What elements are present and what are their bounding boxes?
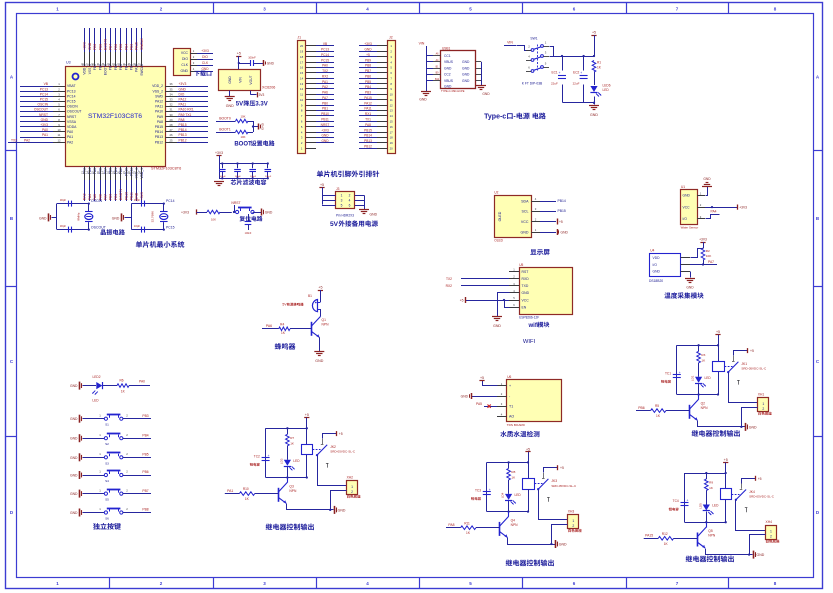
svg-text:LED6: LED6 (603, 84, 611, 88)
svg-text:4: 4 (349, 198, 351, 202)
svg-text:PA0: PA0 (67, 130, 73, 134)
svg-text:GND: GND (112, 216, 120, 220)
svg-text:PB11: PB11 (321, 118, 329, 122)
svg-text:S1: S1 (105, 423, 109, 427)
svg-text:TXD: TXD (522, 284, 529, 288)
svg-text:NPN: NPN (322, 323, 330, 327)
svg-text:+: + (679, 371, 681, 375)
svg-text:XH2: XH2 (347, 475, 354, 479)
svg-text:GND: GND (179, 87, 187, 91)
svg-text:5V: 5V (236, 102, 243, 108)
svg-text:S2: S2 (105, 442, 109, 446)
svg-text:10K: 10K (241, 135, 246, 139)
svg-text:U6: U6 (507, 375, 511, 379)
svg-text:PA5: PA5 (476, 402, 482, 406)
svg-text:R3: R3 (701, 353, 705, 357)
svg-text:JK2: JK2 (330, 445, 336, 449)
svg-text:PA12: PA12 (364, 101, 372, 105)
svg-text:PC15: PC15 (321, 58, 329, 62)
svg-text:LED: LED (705, 376, 712, 380)
svg-text:+: + (489, 488, 491, 492)
svg-text:OSCOUT: OSCOUT (67, 110, 82, 114)
svg-text:15: 15 (300, 71, 304, 75)
svg-text:VSSA: VSSA (67, 120, 77, 124)
svg-text:CLK: CLK (202, 61, 209, 65)
svg-text:GND: GND (522, 291, 530, 295)
svg-text:PA1: PA1 (42, 133, 48, 137)
svg-text:GND: GND (201, 67, 209, 71)
svg-text:PA12: PA12 (179, 98, 187, 102)
svg-text:PB3: PB3 (130, 44, 134, 50)
svg-text:PB8: PB8 (365, 64, 371, 68)
svg-text:XC6206: XC6206 (262, 86, 275, 90)
svg-text:GND: GND (559, 543, 567, 547)
svg-text:VOUT: VOUT (249, 75, 253, 84)
svg-text:100nF: 100nF (248, 56, 256, 60)
svg-text:PA11: PA11 (155, 105, 163, 109)
svg-text:GND: GND (590, 113, 598, 117)
svg-text:TX2: TX2 (322, 69, 328, 73)
svg-text:+3V3: +3V3 (699, 237, 707, 241)
svg-text:U2: U2 (494, 191, 498, 195)
svg-text:S6: S6 (105, 517, 109, 521)
svg-text:22uF: 22uF (573, 82, 580, 86)
svg-text:PB5: PB5 (142, 453, 148, 457)
svg-text:R11: R11 (464, 521, 470, 525)
svg-text:+5: +5 (724, 458, 728, 462)
svg-text:PC14: PC14 (67, 94, 76, 98)
svg-text:PC13: PC13 (321, 48, 329, 52)
svg-text:GND: GND (267, 61, 275, 65)
svg-text:10K: 10K (211, 218, 216, 222)
svg-text:OSCIN: OSCIN (91, 199, 103, 203)
svg-text:SCL: SCL (522, 209, 529, 213)
svg-text:TC3: TC3 (475, 488, 481, 492)
svg-text:R8: R8 (511, 470, 515, 474)
svg-text:+3V3: +3V3 (181, 210, 189, 214)
svg-text:11: 11 (390, 98, 393, 102)
svg-text:PB15: PB15 (155, 125, 163, 129)
svg-text:PA11: PA11 (364, 107, 372, 111)
svg-text:GND: GND (338, 508, 346, 512)
svg-text:PB6: PB6 (365, 74, 371, 78)
svg-text:GND: GND (41, 118, 49, 122)
svg-text:100nF: 100nF (219, 176, 226, 178)
svg-text:VBUS: VBUS (444, 60, 454, 64)
svg-text:GND: GND (70, 474, 78, 478)
svg-text:R6: R6 (119, 378, 123, 382)
svg-text:J3: J3 (336, 187, 340, 191)
svg-text:EN: EN (522, 305, 527, 309)
svg-text:2: 2 (349, 194, 351, 198)
svg-text:GND: GND (683, 194, 691, 198)
svg-text:BOOT0: BOOT0 (219, 117, 231, 121)
svg-text:VSS_2: VSS_2 (152, 89, 163, 93)
svg-text:CLK: CLK (181, 63, 188, 67)
svg-text:PA2: PA2 (322, 85, 328, 89)
svg-text:AO: AO (509, 415, 514, 419)
svg-text:13: 13 (300, 82, 304, 86)
svg-text:LED: LED (515, 493, 522, 497)
svg-text:3: 3 (341, 198, 343, 202)
svg-text:GND: GND (364, 48, 372, 52)
svg-text:11: 11 (58, 133, 61, 137)
svg-text:Q5: Q5 (708, 529, 713, 533)
svg-text:SRD-05VDC-SL-C: SRD-05VDC-SL-C (330, 450, 356, 454)
svg-text:EC1: EC1 (552, 70, 558, 74)
svg-text:GND: GND (370, 213, 378, 217)
svg-text:OLED: OLED (494, 239, 503, 243)
svg-text:PA8: PA8 (157, 120, 163, 124)
svg-text:17: 17 (300, 60, 304, 64)
svg-text:GND: GND (321, 134, 329, 138)
svg-text:PC14: PC14 (166, 199, 175, 203)
svg-text:DIO: DIO (179, 92, 185, 96)
svg-text:30pF: 30pF (60, 198, 66, 202)
svg-text:GND: GND (444, 84, 452, 88)
svg-text:GND: GND (757, 553, 765, 557)
svg-text:PB5: PB5 (365, 80, 371, 84)
svg-text:5: 5 (341, 203, 343, 207)
svg-text:GND: GND (70, 492, 78, 496)
svg-text:TC4: TC4 (673, 499, 679, 503)
svg-text:+3V3: +3V3 (83, 42, 87, 50)
svg-text:PB3: PB3 (365, 91, 371, 95)
svg-text:1: 1 (341, 194, 343, 198)
svg-text:PC13: PC13 (67, 89, 76, 93)
svg-text:LD4: LD4 (501, 492, 505, 498)
svg-text:PA1: PA1 (67, 135, 73, 139)
svg-text:PB12: PB12 (364, 144, 372, 148)
svg-text:RX2: RX2 (446, 284, 453, 288)
svg-text:12: 12 (300, 87, 304, 91)
svg-text:PB15: PB15 (179, 123, 187, 127)
svg-text:1: 1 (351, 485, 353, 489)
svg-text:DIO: DIO (202, 55, 208, 59)
svg-text:19: 19 (390, 141, 394, 145)
svg-text:GND: GND (462, 79, 470, 83)
svg-text:GND: GND (749, 425, 757, 429)
svg-text:VIN: VIN (419, 42, 425, 46)
svg-text:GND: GND (260, 122, 264, 130)
svg-text:LD5: LD5 (698, 503, 702, 509)
svg-text:LD3: LD3 (280, 458, 284, 464)
svg-text:+5: +5 (460, 299, 464, 303)
svg-text:R7: R7 (290, 436, 294, 440)
svg-text:3.3V: 3.3V (255, 102, 267, 108)
svg-text:26: 26 (169, 133, 173, 137)
svg-text:PA6: PA6 (266, 324, 272, 328)
svg-text:10K: 10K (706, 254, 712, 258)
svg-text:TX2: TX2 (11, 138, 17, 142)
svg-text:PA10 RX1: PA10 RX1 (179, 108, 194, 112)
svg-text:VB: VB (323, 42, 327, 46)
svg-text:TX2: TX2 (446, 277, 452, 281)
svg-text:B12: B12 (435, 79, 440, 81)
svg-text:SRD-05VDC-SL-C: SRD-05VDC-SL-C (741, 367, 767, 371)
svg-text:VDD_2: VDD_2 (152, 84, 163, 88)
svg-text:Q3: Q3 (289, 484, 294, 488)
svg-text:USB1: USB1 (442, 46, 451, 50)
svg-text:100nF: 100nF (235, 176, 242, 178)
svg-text:PA2: PA2 (24, 138, 30, 142)
svg-text:GND: GND (461, 395, 469, 399)
svg-text:+5: +5 (758, 477, 762, 481)
svg-text:PB14: PB14 (179, 128, 187, 132)
svg-text:+5: +5 (480, 376, 484, 380)
svg-text:GND: GND (482, 92, 490, 96)
svg-text:ESP8266-12F: ESP8266-12F (519, 316, 539, 320)
svg-text:RX1: RX1 (365, 112, 371, 116)
svg-text:36: 36 (169, 82, 173, 86)
svg-text:LED: LED (712, 504, 719, 508)
svg-text:PA9: PA9 (157, 115, 163, 119)
svg-text:GND: GND (228, 76, 232, 84)
svg-text:PB14: PB14 (155, 130, 163, 134)
svg-text:Type-c: Type-c (484, 114, 506, 121)
svg-text:R4: R4 (280, 322, 284, 326)
svg-text:PB5: PB5 (119, 44, 123, 50)
svg-text:GND: GND (70, 384, 78, 388)
svg-text:PB1: PB1 (322, 107, 328, 111)
svg-text:B1: B1 (308, 294, 312, 298)
svg-text:14: 14 (300, 76, 304, 80)
svg-text:16: 16 (300, 66, 304, 70)
svg-text:JK1: JK1 (741, 362, 747, 366)
svg-text:Q4: Q4 (511, 518, 516, 522)
svg-text:100nF: 100nF (265, 176, 272, 178)
svg-text:1: 1 (572, 519, 574, 523)
svg-text:GND: GND (70, 417, 78, 421)
svg-text:VCC: VCC (181, 51, 189, 55)
svg-text:U3: U3 (66, 61, 71, 65)
svg-text:GND: GND (444, 67, 452, 71)
svg-text:PA15: PA15 (135, 42, 139, 50)
svg-text:PA7: PA7 (104, 194, 108, 200)
svg-text:+3V3: +3V3 (215, 151, 223, 155)
svg-text:PA8: PA8 (365, 123, 371, 127)
svg-text:PB7: PB7 (109, 44, 113, 50)
svg-text:R12: R12 (662, 532, 668, 536)
svg-text:I/O: I/O (653, 263, 658, 267)
svg-text:PA8: PA8 (179, 118, 185, 122)
svg-text:PA6: PA6 (322, 91, 328, 95)
svg-text:OSCOUT: OSCOUT (91, 226, 107, 230)
svg-text:14: 14 (390, 114, 394, 118)
svg-text:PA1: PA1 (227, 489, 233, 493)
svg-text:PB8: PB8 (142, 508, 148, 512)
svg-text:RST: RST (522, 270, 529, 274)
svg-text:PA15: PA15 (364, 96, 372, 100)
svg-text:LED: LED (92, 399, 99, 403)
svg-text:RX2: RX2 (322, 74, 328, 78)
svg-text:PB4: PB4 (142, 433, 148, 437)
svg-text:PB6: PB6 (114, 44, 118, 50)
svg-text:1: 1 (770, 530, 772, 534)
svg-text:SWCLK: SWCLK (140, 37, 144, 50)
svg-text:U4: U4 (650, 249, 654, 253)
svg-text:BOOT1: BOOT1 (219, 128, 231, 132)
svg-text:PA7: PA7 (322, 96, 328, 100)
svg-text:5V: 5V (330, 221, 339, 228)
svg-text:R10: R10 (243, 487, 249, 491)
svg-text:CC1: CC1 (444, 54, 451, 58)
svg-text:DIO: DIO (182, 57, 188, 61)
svg-text:GND: GND (462, 60, 470, 64)
svg-text:PB8: PB8 (98, 44, 102, 50)
svg-text:+3V3: +3V3 (140, 192, 144, 200)
svg-text:LED: LED (603, 88, 610, 92)
svg-text:17: 17 (390, 130, 394, 134)
svg-text:GND: GND (493, 324, 501, 328)
svg-text:+: + (268, 454, 270, 458)
svg-text:Q2: Q2 (701, 401, 706, 405)
svg-text:3V3: 3V3 (259, 93, 265, 97)
svg-text:100nF: 100nF (245, 232, 252, 235)
svg-text:100nF: 100nF (250, 176, 257, 178)
svg-text:SW1: SW1 (530, 37, 537, 41)
svg-text:T1: T1 (509, 405, 513, 409)
svg-text:GND: GND (70, 437, 78, 441)
svg-text:10pF: 10pF (134, 224, 140, 228)
svg-text:SDA: SDA (521, 199, 529, 203)
svg-text:GND: GND (315, 359, 323, 363)
svg-text:PA1: PA1 (322, 80, 328, 84)
svg-text:I/O: I/O (683, 217, 688, 221)
svg-text:GND: GND (521, 230, 529, 234)
svg-text:35: 35 (169, 87, 173, 91)
svg-text:PB9: PB9 (93, 44, 97, 50)
svg-text:12: 12 (390, 103, 394, 107)
svg-text:2: 2 (351, 490, 353, 494)
svg-text:VCC: VCC (683, 205, 691, 209)
svg-text:8MHz: 8MHz (77, 212, 81, 221)
svg-text:2: 2 (572, 524, 574, 528)
svg-text:19: 19 (300, 50, 304, 54)
svg-text:BOOT0: BOOT0 (104, 39, 108, 50)
svg-text:SRD-05VDC-SL-C: SRD-05VDC-SL-C (749, 494, 775, 498)
svg-text:GND: GND (180, 69, 188, 73)
svg-text:+5: +5 (592, 31, 596, 35)
svg-text:U1: U1 (681, 185, 685, 189)
svg-text:BOOT1: BOOT1 (119, 189, 123, 200)
svg-text:R9: R9 (709, 481, 713, 485)
svg-text:PC15: PC15 (166, 226, 175, 230)
svg-text:+5: +5 (750, 349, 754, 353)
svg-text:+3V3: +3V3 (179, 82, 187, 86)
svg-text:PB0: PB0 (109, 194, 113, 200)
svg-text:+5: +5 (237, 51, 241, 55)
svg-text:PB13: PB13 (155, 135, 163, 139)
svg-text:+: + (687, 499, 689, 503)
svg-text:PB4: PB4 (365, 85, 371, 89)
svg-text:18: 18 (390, 136, 394, 140)
svg-text:PC15: PC15 (67, 100, 76, 104)
svg-text:PA9 TX1: PA9 TX1 (179, 113, 192, 117)
svg-text:NRST: NRST (67, 115, 76, 119)
svg-text:6: 6 (349, 203, 351, 207)
svg-text:LD1: LD1 (691, 375, 695, 381)
svg-text:PB15: PB15 (364, 128, 372, 132)
svg-text:U5: U5 (519, 263, 523, 267)
svg-text:LED2: LED2 (93, 375, 101, 379)
svg-text:+5: +5 (320, 183, 324, 187)
svg-text:XH3: XH3 (568, 509, 575, 513)
svg-text:+: + (559, 71, 561, 75)
svg-text:GND: GND (462, 73, 470, 77)
svg-text:K FT DIP-03B: K FT DIP-03B (522, 82, 543, 86)
svg-text:R2: R2 (706, 249, 710, 253)
svg-text:S4: S4 (105, 479, 109, 483)
svg-text:NPN: NPN (511, 523, 519, 527)
svg-text:18: 18 (300, 55, 304, 59)
svg-text:Pin HDR2X3: Pin HDR2X3 (336, 214, 354, 218)
svg-text:GND: GND (686, 286, 694, 290)
svg-text:+5: +5 (526, 447, 530, 451)
svg-text:OLED: OLED (498, 211, 502, 221)
svg-text:Water Sensor: Water Sensor (681, 225, 699, 229)
svg-text:PB15: PB15 (558, 209, 566, 213)
svg-text:NRST: NRST (39, 113, 48, 117)
svg-text:NRST: NRST (321, 123, 330, 127)
svg-text:TDS BOARD: TDS BOARD (507, 423, 526, 427)
svg-text:+5: +5 (559, 220, 563, 224)
svg-text:+5: +5 (305, 413, 309, 417)
svg-text:BOOT: BOOT (234, 142, 252, 148)
svg-text:PB14: PB14 (558, 199, 566, 203)
svg-text:PB14: PB14 (364, 134, 372, 138)
svg-text:GND: GND (653, 270, 661, 274)
svg-text:wifi: wifi (527, 323, 538, 329)
svg-text:PB7: PB7 (365, 69, 371, 73)
svg-text:PB12: PB12 (155, 140, 163, 144)
svg-text:PA0: PA0 (139, 380, 145, 384)
svg-text:XH4: XH4 (766, 520, 773, 524)
svg-text:2: 2 (762, 407, 764, 411)
svg-text:13: 13 (390, 109, 394, 113)
svg-text:DS18B20: DS18B20 (649, 279, 663, 283)
svg-text:+5: +5 (366, 53, 370, 57)
svg-text:NRST: NRST (231, 201, 240, 205)
svg-text:16: 16 (390, 125, 394, 129)
svg-text:GND: GND (70, 511, 78, 515)
svg-text:PB7: PB7 (142, 489, 148, 493)
svg-text:PA11: PA11 (179, 103, 187, 107)
svg-text:GND: GND (462, 67, 470, 71)
svg-text:GND: GND (88, 42, 92, 50)
svg-text:+3V3: +3V3 (321, 128, 329, 132)
svg-text:PA8: PA8 (448, 523, 454, 527)
svg-text:+3V3: +3V3 (201, 49, 209, 53)
svg-text:WIFI: WIFI (523, 339, 536, 345)
svg-text:R1: R1 (597, 61, 601, 65)
svg-text:PB13: PB13 (179, 133, 187, 137)
svg-text:PB11: PB11 (130, 192, 134, 200)
svg-text:PA15: PA15 (645, 534, 653, 538)
svg-text:PC13: PC13 (40, 87, 48, 91)
svg-text:EC2: EC2 (573, 70, 579, 74)
svg-text:PB12: PB12 (179, 138, 187, 142)
svg-text:LED: LED (293, 459, 300, 463)
svg-text:22uF: 22uF (551, 82, 558, 86)
svg-text:1: 1 (762, 402, 764, 406)
svg-text:GND: GND (321, 139, 329, 143)
svg-text:PA10: PA10 (155, 110, 163, 114)
svg-text:S5: S5 (105, 498, 109, 502)
svg-text:TC1: TC1 (665, 371, 671, 375)
svg-text:PA7: PA7 (708, 260, 714, 264)
svg-text:PB9: PB9 (365, 58, 371, 62)
